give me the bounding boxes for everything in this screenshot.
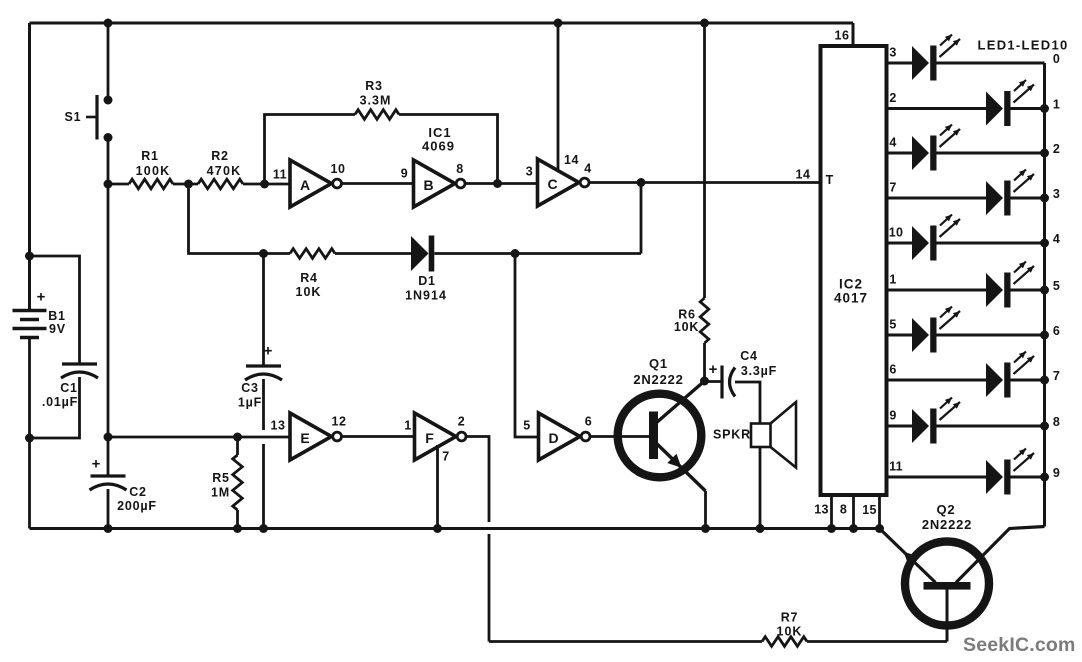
watermark SeekIC.com (963, 634, 1076, 656)
svg-text:A: A (300, 177, 310, 193)
LED array label (977, 38, 1068, 53)
wire F output (466, 437, 490, 523)
pin 16 stub (852, 23, 855, 46)
inverter A (IC1) (290, 160, 342, 207)
svg-text:6: 6 (889, 363, 896, 377)
node A-input feedback junction (260, 180, 269, 189)
wire R2 to inverter A input (243, 183, 290, 186)
wire F output drop below crossing (488, 534, 491, 642)
svg-text:R3: R3 (365, 79, 383, 93)
pin 14 power stub for IC1 (557, 23, 560, 171)
svg-text:S1: S1 (65, 110, 82, 124)
svg-text:3.3µF: 3.3µF (741, 364, 777, 378)
resistor R2 470K (198, 149, 243, 189)
inverter D (IC1) (539, 413, 590, 460)
svg-text:2N2222: 2N2222 (633, 372, 683, 387)
svg-text:12: 12 (332, 415, 347, 429)
node pin7 / ground rail junction (433, 524, 442, 533)
speaker SPKR (713, 402, 796, 468)
LED8 (output 7, IC2 pin 6) (887, 352, 1061, 398)
svg-text:R2: R2 (211, 149, 229, 163)
wire C2 lower lead (107, 489, 110, 529)
pin 8 label (456, 162, 463, 176)
svg-text:14: 14 (796, 168, 811, 182)
svg-text:8: 8 (840, 503, 847, 517)
svg-text:0: 0 (1053, 52, 1060, 66)
node pin8 / rail junction (849, 524, 858, 533)
svg-text:SPKR: SPKR (713, 428, 751, 442)
node E-row / C2 junction (104, 433, 113, 442)
pin 5 label (523, 419, 530, 433)
wire bottom common rail (30, 527, 880, 530)
svg-text:D1: D1 (418, 274, 436, 288)
pin 8 stub (852, 495, 855, 529)
switch S1 (65, 95, 113, 142)
svg-text:2: 2 (889, 91, 896, 105)
node R5 / rail junction (233, 524, 242, 533)
inverter F (IC1) (415, 413, 467, 460)
svg-text:B: B (423, 177, 433, 193)
transistor Q2 2N2222 (880, 502, 1045, 642)
wire C3 lower lead above crossing (262, 379, 265, 430)
svg-text:.01µF: .01µF (42, 395, 78, 409)
node C3 / rail junction (259, 524, 268, 533)
capacitor C1 .01uF (42, 364, 98, 409)
wire C1 bottom branch (30, 377, 80, 438)
wire D output to Q1 base (590, 435, 651, 438)
wire C1 top branch (30, 256, 80, 364)
diode D1 1N914 (405, 236, 447, 303)
resistor R4 10K (290, 249, 335, 299)
capacitor C4 3.3uF (705, 349, 778, 399)
pin 7 ground stub (436, 445, 439, 529)
wire R1-R2 segment (173, 183, 198, 186)
node D-input branch junction (511, 249, 520, 258)
inverter E (IC1) (290, 413, 342, 460)
inverter B (IC1) (414, 160, 466, 207)
svg-text:9V: 9V (49, 322, 66, 336)
svg-text:2: 2 (458, 415, 465, 429)
wire S1 column to E-row (107, 184, 110, 437)
pin 15 stub (878, 495, 881, 529)
wire R1R2 junction to diode row (189, 184, 291, 254)
svg-text:R1: R1 (141, 149, 159, 163)
LED5 (output 4, IC2 pin 10) (887, 215, 1061, 261)
node C-output junction (637, 178, 646, 187)
svg-text:10K: 10K (296, 285, 322, 299)
wire S1 upper lead (107, 23, 110, 100)
node top rail / R6 junction (700, 19, 709, 28)
svg-text:9: 9 (1053, 466, 1060, 480)
wire D1 to C-output drop (435, 252, 642, 255)
wire Q1 emitter to ground rail (704, 491, 707, 529)
svg-text:+: + (709, 361, 718, 378)
pin 7 label (442, 450, 449, 464)
svg-text:R5: R5 (212, 471, 230, 485)
pin 13 label (271, 419, 286, 433)
svg-text:+: + (92, 456, 101, 473)
node C2 / rail junction (104, 524, 113, 533)
node top rail / IC1 pin14 junction (554, 19, 563, 28)
wire diode row to inverter D input (515, 254, 539, 438)
svg-text:Q2: Q2 (937, 502, 956, 517)
svg-text:3: 3 (889, 46, 896, 60)
LED7 (output 6, IC2 pin 5) (887, 307, 1061, 353)
svg-text:+: + (37, 289, 46, 306)
pin 14 label at IC2 (796, 168, 811, 182)
svg-text:B1: B1 (48, 309, 66, 323)
pin 6 label (585, 415, 592, 429)
wire E-row from C2 node (108, 436, 290, 439)
svg-text:9: 9 (889, 409, 896, 423)
pin 13 stub (830, 495, 833, 529)
svg-text:3: 3 (526, 165, 533, 179)
wire LED cathode rail (1043, 63, 1046, 527)
svg-text:8: 8 (456, 162, 463, 176)
resistor R7 10K (762, 611, 807, 647)
svg-text:1µF: 1µF (238, 396, 262, 410)
LED10 (output 9, IC2 pin 11) (887, 449, 1061, 495)
wire S1 lower lead (107, 138, 110, 185)
inverter C (IC1) (538, 159, 589, 206)
pin 3 label (526, 165, 533, 179)
svg-text:1N914: 1N914 (405, 289, 447, 303)
wire C2 upper lead (107, 437, 110, 476)
pin 10 label (331, 162, 346, 176)
resistor R1 100K (129, 149, 173, 189)
svg-text:5: 5 (523, 419, 530, 433)
pin 12 label (332, 415, 347, 429)
svg-text:4: 4 (889, 136, 896, 150)
transistor Q1 2N2222 (618, 356, 706, 491)
svg-text:100K: 100K (136, 164, 171, 178)
svg-text:6: 6 (585, 415, 592, 429)
svg-text:7: 7 (442, 450, 449, 464)
svg-text:11: 11 (273, 168, 287, 182)
svg-text:6: 6 (1053, 324, 1060, 338)
svg-text:14: 14 (564, 153, 579, 167)
svg-text:T: T (826, 173, 834, 187)
svg-text:1: 1 (889, 273, 896, 287)
svg-text:10: 10 (889, 226, 904, 240)
pin 11 label (273, 168, 287, 182)
pin 8 ground label (840, 503, 847, 517)
pin 2 label (458, 415, 465, 429)
svg-text:C1: C1 (60, 381, 78, 395)
svg-text:3: 3 (1053, 187, 1060, 201)
wire left ground drop (28, 438, 31, 529)
IC IC2 4017 (821, 46, 887, 495)
wire R4 to D1 (335, 252, 411, 255)
pin 4 label (584, 162, 591, 176)
svg-text:11: 11 (889, 460, 903, 474)
svg-text:13: 13 (814, 503, 829, 517)
svg-text:C2: C2 (129, 485, 147, 499)
svg-text:8: 8 (1053, 415, 1060, 429)
svg-text:10: 10 (331, 162, 346, 176)
svg-text:R7: R7 (781, 611, 799, 625)
svg-text:2N2222: 2N2222 (922, 517, 972, 532)
svg-text:9: 9 (401, 167, 408, 181)
node pin13 / rail junction (827, 524, 836, 533)
LED6 (output 5, IC2 pin 1) (887, 262, 1061, 308)
wire C3 upper lead (262, 254, 265, 367)
svg-text:2: 2 (1053, 142, 1060, 156)
pin 13 label (814, 503, 829, 517)
node B-output feedback junction (493, 179, 502, 188)
svg-text:IC2: IC2 (839, 277, 863, 292)
LED3 (output 2, IC2 pin 4) (887, 125, 1061, 171)
svg-text:1M: 1M (211, 486, 230, 500)
node Q1 base / R6 / C4 junction (700, 377, 709, 386)
svg-text:C: C (547, 176, 557, 192)
svg-text:13: 13 (271, 419, 286, 433)
pin 15 label (862, 503, 877, 517)
wire C3 lower lead below crossing (262, 444, 265, 529)
wire R7 to Q2 base (807, 640, 947, 643)
pin 16 label (835, 29, 850, 43)
wire battery negative lead (28, 337, 31, 438)
svg-text:4: 4 (1053, 232, 1060, 246)
capacitor C3 1uF (238, 343, 282, 410)
svg-text:C4: C4 (740, 349, 758, 363)
LED9 (output 8, IC2 pin 9) (887, 398, 1061, 444)
node R5 top junction (233, 433, 242, 442)
svg-text:10K: 10K (777, 625, 803, 639)
svg-text:470K: 470K (207, 164, 242, 178)
svg-text:3.3M: 3.3M (360, 94, 392, 108)
svg-text:7: 7 (889, 181, 896, 195)
node Q1 emitter / ground junction (701, 524, 710, 533)
resistor R3 3.3M (355, 79, 399, 119)
battery B1 9V (13, 289, 66, 338)
svg-text:7: 7 (1053, 369, 1060, 383)
pin 14 label at C (564, 153, 579, 167)
wire B output to C input (465, 182, 538, 185)
LED4 (output 3, IC2 pin 7) (887, 170, 1061, 216)
svg-text:10K: 10K (674, 320, 699, 334)
svg-text:1: 1 (1053, 98, 1060, 112)
node battery/C1 top junction (25, 252, 34, 261)
svg-text:C3: C3 (241, 381, 259, 395)
node R1/R2 junction (184, 180, 193, 189)
wire R6 lower lead (703, 343, 706, 381)
wire R7 row left segment (489, 640, 762, 643)
svg-text:+: + (264, 343, 273, 360)
svg-text:1: 1 (404, 419, 411, 433)
wire R1 row left segment (108, 183, 129, 186)
resistor R6 10K (674, 298, 709, 343)
IC1 designator (422, 125, 455, 154)
resistor R5 1M (211, 437, 242, 529)
svg-text:Q1: Q1 (649, 356, 668, 371)
svg-text:15: 15 (862, 503, 877, 517)
svg-text:4: 4 (584, 162, 591, 176)
LED1 (output 0, IC2 pin 3) (887, 35, 1061, 81)
svg-text:SeekIC.com: SeekIC.com (963, 634, 1076, 656)
wire C output to IC2 pin14 (589, 181, 821, 184)
svg-text:5: 5 (889, 318, 896, 332)
wire feedback right segment (399, 115, 498, 184)
svg-text:R4: R4 (300, 271, 318, 285)
pin 9 label (401, 167, 408, 181)
svg-text:200µF: 200µF (117, 499, 157, 513)
wire A output to B input (341, 182, 414, 185)
wire E output to F input (341, 435, 415, 438)
svg-text:5: 5 (1053, 279, 1060, 293)
LED2 (output 1, IC2 pin 2) (887, 80, 1061, 126)
wire R6 upper lead (703, 23, 706, 298)
svg-text:E: E (300, 430, 309, 446)
svg-text:16: 16 (835, 29, 850, 43)
svg-text:4069: 4069 (422, 139, 455, 154)
svg-text:4017: 4017 (834, 291, 868, 306)
wire feedback left riser (265, 115, 356, 185)
svg-text:D: D (548, 430, 558, 446)
node S1 / R1 row junction (104, 180, 113, 189)
capacitor C2 200uF (90, 456, 157, 514)
wire C-output drop to diode row (640, 183, 643, 254)
node pin15 / rail junction (875, 524, 884, 533)
wire left supply drop (28, 23, 31, 311)
wire top supply rail (30, 22, 854, 25)
svg-text:LED1-LED10: LED1-LED10 (977, 38, 1068, 53)
wire speaker to ground rail (759, 447, 762, 529)
node speaker / ground junction (756, 524, 765, 533)
node battery/C1 bottom junction (25, 434, 34, 443)
wire C4 to speaker (735, 382, 760, 424)
node top rail / S1 junction (104, 19, 113, 28)
pin 1 label (404, 419, 411, 433)
node C3 top junction (259, 249, 268, 258)
svg-text:F: F (425, 430, 434, 446)
